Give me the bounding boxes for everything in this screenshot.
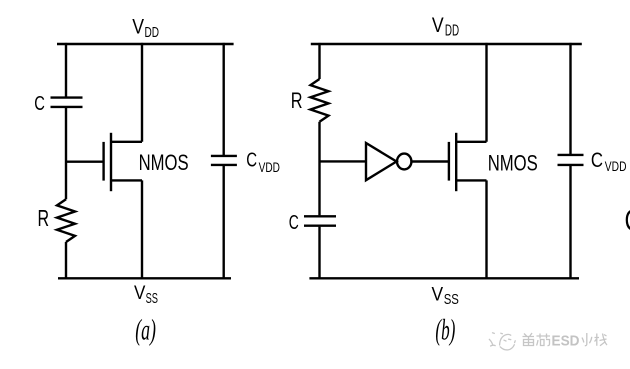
capacitor CVDD (a) bbox=[211, 156, 237, 165]
wire left branch top (a) bbox=[65, 43, 67, 97]
svg-text:DD: DD bbox=[145, 24, 160, 41]
wire node to inverter input (b) bbox=[320, 160, 367, 162]
wire source to VSS (b) bbox=[485, 180, 487, 278]
transistor NMOS M1 (a) bbox=[104, 133, 142, 191]
watermark logo icon (tomato sketch) bbox=[489, 333, 515, 350]
wire right branch top (a) bbox=[222, 43, 224, 155]
wire inverter output to gate (b) bbox=[412, 160, 449, 162]
node VSS label (a) bbox=[134, 282, 158, 307]
svg-text:C: C bbox=[591, 148, 603, 172]
wire drain to VDD (a) bbox=[141, 43, 143, 142]
svg-text:C: C bbox=[246, 150, 257, 172]
transistor NMOS M2 (b) bbox=[449, 133, 487, 191]
svg-text:V: V bbox=[432, 284, 444, 306]
svg-text:VDD: VDD bbox=[605, 158, 627, 174]
svg-text:NMOS: NMOS bbox=[139, 150, 189, 175]
wire VSS rail (a) bbox=[58, 277, 231, 279]
svg-text:VDD: VDD bbox=[259, 159, 280, 175]
watermark text 番茄ESD小栈 bbox=[523, 333, 551, 346]
svg-text:SS: SS bbox=[444, 291, 459, 308]
wire gate (a) bbox=[66, 160, 104, 162]
wire drain to VDD (b) bbox=[485, 43, 487, 142]
wire source to VSS (a) bbox=[141, 180, 143, 278]
svg-text:V: V bbox=[432, 13, 444, 37]
svg-text:R: R bbox=[38, 205, 50, 231]
wire right branch bottom (a) bbox=[222, 166, 224, 278]
svg-text:SS: SS bbox=[146, 290, 158, 307]
node VDD label (b) bbox=[432, 13, 459, 40]
svg-text:(a): (a) bbox=[135, 314, 156, 346]
resistor R1 (a) bbox=[57, 199, 75, 242]
label CVDD (b) bbox=[591, 148, 627, 174]
wire right branch top (b) bbox=[569, 43, 571, 154]
svg-text:ESD: ESD bbox=[552, 332, 580, 349]
capacitor C2 (b) bbox=[304, 216, 336, 225]
wire resistor R to VSS rail (a) bbox=[65, 242, 67, 278]
wire capacitor to VSS rail (b) bbox=[318, 227, 320, 279]
svg-text:V: V bbox=[132, 15, 144, 39]
svg-text:C: C bbox=[289, 211, 299, 234]
wire left branch top (b) bbox=[318, 43, 320, 79]
wire resistor to capacitor node (b) bbox=[318, 122, 320, 216]
wire VDD rail (a) bbox=[57, 43, 234, 45]
svg-text:C: C bbox=[625, 203, 630, 238]
wire VSS rail (b) bbox=[309, 277, 579, 279]
capacitor C (a) bbox=[51, 98, 83, 107]
wire cap C to resistor R (a) bbox=[65, 108, 67, 200]
svg-text:R: R bbox=[291, 88, 303, 113]
node VDD label (a) bbox=[132, 15, 159, 41]
svg-text:C: C bbox=[34, 93, 45, 115]
inverter U1 (b) bbox=[366, 143, 411, 180]
wire VDD rail (b) bbox=[311, 43, 582, 45]
svg-text:V: V bbox=[134, 282, 145, 304]
svg-text:(b): (b) bbox=[435, 314, 455, 346]
resistor R2 (b) bbox=[311, 79, 329, 122]
svg-text:DD: DD bbox=[445, 23, 459, 40]
svg-text:NMOS: NMOS bbox=[488, 151, 538, 176]
wire right branch bottom (b) bbox=[569, 166, 571, 278]
capacitor CVDD2 (b) bbox=[558, 155, 584, 165]
node VSS label (b) bbox=[432, 284, 459, 309]
label CVDD (a) bbox=[246, 150, 280, 175]
